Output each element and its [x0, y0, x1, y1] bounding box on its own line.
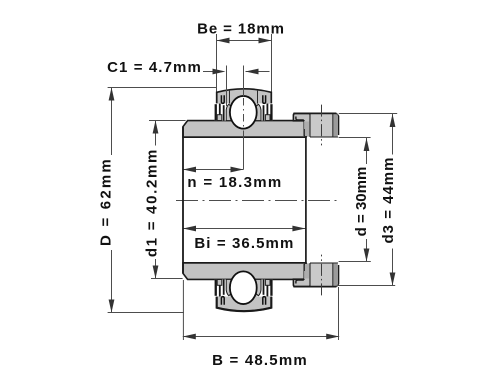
ball — [230, 96, 257, 129]
svg-text:n = 18.3mm: n = 18.3mm — [187, 174, 282, 191]
svg-text:B = 48.5mm: B = 48.5mm — [212, 352, 308, 369]
collar flange — [293, 113, 310, 120]
arrow Be left — [217, 38, 230, 44]
collar body outline — [304, 114, 338, 137]
dimension D extension top — [108, 87, 217, 89]
arrow d1 up — [153, 121, 159, 134]
C1 extension line left — [226, 66, 228, 107]
arrow B left — [183, 334, 196, 340]
dimension Bi line — [183, 228, 305, 230]
outer ring top outline — [217, 89, 272, 104]
dimension D line — [111, 88, 113, 313]
arrow d3 up — [390, 114, 396, 127]
dimension d1 line — [155, 121, 157, 279]
bore lines full width — [183, 137, 306, 263]
svg-text:d3 = 44mm: d3 = 44mm — [380, 157, 397, 244]
arrow Bi right — [292, 226, 305, 232]
inner ring right face line in bore — [305, 137, 307, 263]
arrow d1 down — [153, 266, 159, 279]
outer ring raceway shoulder left — [227, 104, 233, 112]
dimension d3 extension top — [339, 113, 397, 115]
seal case edge line top right — [257, 91, 259, 104]
axis centerline — [176, 200, 339, 202]
dimension C1 leader left — [203, 71, 214, 73]
inner ring left face line full height — [182, 127, 184, 274]
seal left slinger — [217, 115, 222, 121]
svg-text:d = 30mm: d = 30mm — [353, 167, 370, 237]
collar dark band edge — [332, 114, 334, 137]
dimension Be extensions — [217, 34, 272, 92]
arrow n right — [231, 167, 244, 173]
seal left shoulder — [226, 104, 232, 120]
bottom half = mirror — [183, 255, 339, 312]
collar top line — [293, 112, 336, 114]
dimension n line — [183, 169, 244, 171]
arrow Bi left — [183, 226, 196, 232]
arrow D up — [109, 88, 115, 101]
arrow d3 down — [390, 273, 396, 286]
collar body light centre — [311, 114, 333, 136]
seal right shoulder — [255, 104, 261, 120]
dimension d extension bottom — [339, 261, 371, 263]
outer ring top — [217, 89, 272, 104]
dimension D extension bottom — [108, 312, 184, 314]
collar dark band right — [333, 114, 338, 136]
dimension B extensions — [183, 280, 338, 340]
dimension B line — [183, 336, 339, 338]
seal right slinger — [265, 115, 270, 121]
dimension d3 line — [392, 114, 394, 286]
outer ring left U-notch — [221, 95, 224, 103]
dimension d1 extension bottom — [151, 278, 183, 280]
seal left bar C — [223, 105, 225, 120]
svg-text:d1 = 40.2mm: d1 = 40.2mm — [143, 148, 160, 257]
arrow d down — [364, 249, 370, 262]
arrow d up — [364, 138, 370, 151]
svg-text:Be = 18mm: Be = 18mm — [197, 21, 285, 38]
outer ring right U-notch — [263, 95, 266, 103]
bottom outer ring heavy arc — [217, 297, 272, 311]
arrow D down — [109, 300, 115, 313]
seal left white base — [215, 103, 230, 120]
seal right bar C — [263, 105, 265, 120]
dimension d3 extension bottom — [337, 285, 395, 287]
arrow C1 left-pointing — [246, 69, 259, 75]
svg-text:D = 62mm: D = 62mm — [98, 157, 115, 246]
arrow B right — [326, 334, 339, 340]
svg-text:C1 = 4.7mm: C1 = 4.7mm — [107, 59, 202, 76]
collar body — [304, 114, 338, 138]
dimension C1 right segment — [246, 71, 270, 73]
arrow Be right — [259, 38, 272, 44]
dimension Be line — [217, 40, 272, 42]
outer ring bottom edge segments — [217, 103, 272, 105]
dimension d extension top — [339, 137, 371, 139]
seal right bar A — [270, 104, 272, 120]
inner ring top band — [183, 121, 306, 138]
seal case edge line top left — [229, 91, 231, 104]
arrow n left — [183, 167, 196, 173]
collar shading mid — [305, 122, 310, 137]
arrow C1 right-pointing — [213, 69, 226, 75]
dimension d1 extension top — [149, 120, 186, 122]
seal left bar B — [219, 104, 221, 116]
ball vertical centerline — [243, 66, 245, 170]
dimension d line — [366, 138, 368, 262]
seal right bar B — [267, 104, 269, 116]
outer ring raceway shoulder right — [255, 104, 261, 112]
seal right white base — [257, 103, 272, 120]
seal left bar A — [215, 104, 217, 120]
collar hook inner line — [296, 117, 304, 130]
collar centre mark — [321, 105, 323, 146]
svg-text:Bi = 36.5mm: Bi = 36.5mm — [194, 235, 294, 252]
